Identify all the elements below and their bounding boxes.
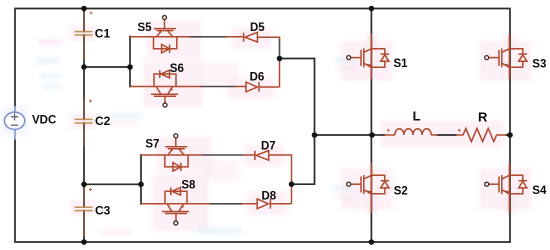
svg-text:C1: C1: [95, 26, 111, 40]
svg-text:S7: S7: [145, 138, 159, 150]
svg-text:D5: D5: [250, 22, 265, 34]
svg-text:S1: S1: [394, 58, 409, 70]
svg-text:D8: D8: [262, 190, 277, 202]
svg-text:S4: S4: [532, 185, 547, 197]
svg-text:S6: S6: [170, 63, 184, 75]
svg-text:C2: C2: [95, 114, 111, 128]
svg-text:S3: S3: [532, 59, 546, 71]
svg-text:C3: C3: [95, 203, 111, 217]
svg-text:VDC: VDC: [32, 115, 56, 127]
svg-text:S2: S2: [394, 185, 408, 197]
svg-text:S8: S8: [181, 180, 196, 192]
svg-text:S5: S5: [138, 22, 153, 34]
svg-text:D6: D6: [250, 72, 265, 84]
svg-text:R: R: [478, 109, 488, 124]
svg-text:D7: D7: [261, 140, 276, 152]
svg-text:L: L: [413, 109, 421, 124]
